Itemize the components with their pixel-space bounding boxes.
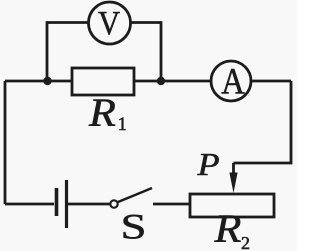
svg-text:2: 2 — [241, 233, 250, 251]
svg-text:A: A — [221, 61, 245, 102]
svg-text:R: R — [88, 92, 116, 136]
svg-text:R: R — [213, 208, 241, 251]
svg-text:V: V — [98, 4, 120, 42]
svg-text:1: 1 — [118, 114, 128, 135]
svg-text:S: S — [121, 207, 147, 247]
svg-text:P: P — [196, 148, 219, 183]
